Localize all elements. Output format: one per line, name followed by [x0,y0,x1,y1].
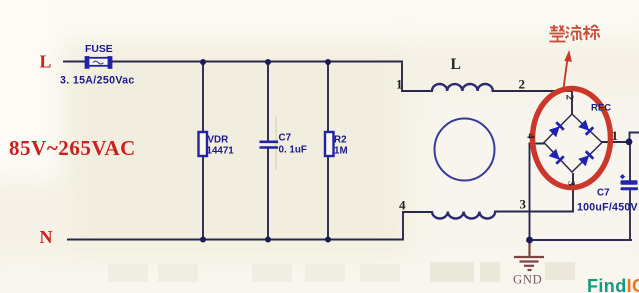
svg-text:C7: C7 [597,188,610,199]
svg-text:2: 2 [519,77,526,92]
svg-text:GND: GND [513,273,542,287]
svg-text:L: L [451,56,461,73]
svg-text:3: 3 [520,197,527,212]
svg-text:3. 15A/250Vac: 3. 15A/250Vac [60,75,135,87]
svg-text:4: 4 [399,198,406,213]
svg-text:100uF/450V: 100uF/450V [577,202,638,214]
svg-text:1M: 1M [334,146,348,157]
svg-text:FindIC: FindIC [587,276,639,293]
svg-text:C7: C7 [279,133,292,144]
svg-text:4: 4 [525,134,536,140]
svg-text:14471: 14471 [207,146,235,157]
svg-text:FUSE: FUSE [85,44,113,55]
svg-text:VDR: VDR [208,135,229,146]
svg-text:3: 3 [566,181,577,186]
svg-text:85V~265VAC: 85V~265VAC [9,136,136,160]
svg-text:L: L [40,52,52,72]
svg-text:R2: R2 [334,135,347,146]
svg-text:1: 1 [612,128,619,143]
svg-text:1: 1 [396,77,403,92]
svg-text:N: N [40,227,53,247]
svg-text:2: 2 [564,95,576,101]
svg-text:REC: REC [591,103,611,114]
svg-text:0. 1uF: 0. 1uF [279,145,307,156]
